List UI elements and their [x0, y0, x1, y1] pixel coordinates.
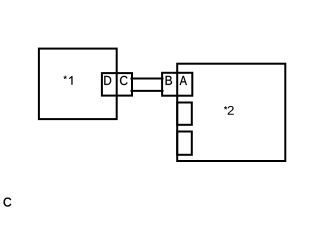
label *1 asterisk — [64, 76, 67, 79]
terminal box 1 on *2 — [177, 103, 192, 125]
figure label C — [4, 198, 12, 207]
label *1 digit — [69, 76, 73, 85]
component box *1 — [39, 49, 117, 120]
component box *2 — [177, 64, 285, 161]
wire top (C to B) — [132, 78, 163, 80]
pin label D — [104, 76, 111, 85]
connector block B/A — [162, 73, 192, 96]
terminal box 2 on *2 — [177, 132, 192, 155]
label *2 asterisk — [224, 106, 227, 109]
pin label A — [180, 76, 187, 85]
wire bottom (C to B) — [132, 90, 163, 92]
connector block D/C — [102, 73, 132, 96]
label *2 digit — [228, 106, 234, 115]
pin label B — [166, 76, 172, 85]
pin label C — [120, 76, 128, 85]
